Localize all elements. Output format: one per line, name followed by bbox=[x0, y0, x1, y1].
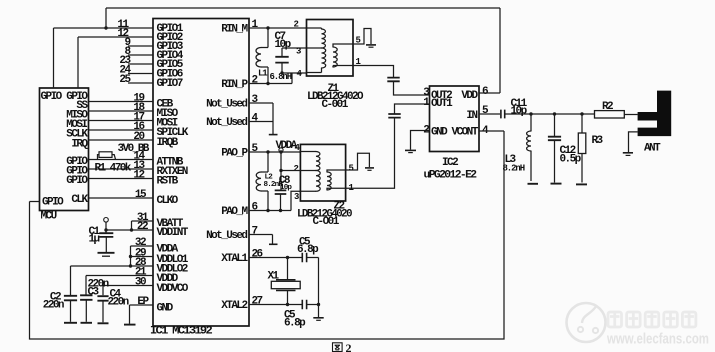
svg-text:220n: 220n bbox=[43, 300, 64, 312]
Z2 primary winding bbox=[300, 152, 316, 192]
svg-text:6.8p: 6.8p bbox=[297, 244, 319, 256]
ground (C12) bbox=[551, 183, 562, 185]
svg-text:C-001: C-001 bbox=[322, 99, 349, 111]
wire: Z2 pin 5 to ground bbox=[346, 153, 370, 170]
wire: MCU GPIO riser to IC1 pin 12 bbox=[77, 37, 79, 88]
svg-text:30: 30 bbox=[135, 276, 146, 288]
svg-text:OUT1: OUT1 bbox=[431, 98, 453, 110]
wire: PAO_M riser to Z2 pin 3 bbox=[291, 191, 300, 210]
capacitor C1 1u bbox=[99, 233, 113, 237]
svg-text:3: 3 bbox=[294, 192, 299, 202]
power terminal (3V0) above C1 bbox=[104, 218, 109, 223]
svg-text:2: 2 bbox=[346, 341, 352, 352]
capacitor C2 220n bbox=[64, 296, 77, 301]
IC1 pin 18 MISO wire and labels bbox=[89, 110, 154, 112]
svg-text:2: 2 bbox=[294, 20, 299, 30]
IC1 pin 21 VDDD wire and labels bbox=[86, 275, 153, 277]
svg-text:PAO_M: PAO_M bbox=[221, 206, 248, 218]
IC1 pin 1 RIN_M wire and labels bbox=[249, 27, 307, 29]
svg-text:GPIO: GPIO bbox=[66, 175, 88, 187]
IC1 pin 16 SPICLK wire and labels bbox=[89, 129, 154, 131]
IC1 pin 20 IRQB wire and labels bbox=[89, 139, 154, 141]
wire: OUT1 to coupling cap and Z2 pin 1 bbox=[395, 104, 430, 114]
svg-text:0.5p: 0.5p bbox=[560, 153, 582, 165]
IC1 pin 29 VDDLO1 wire and labels bbox=[131, 256, 154, 258]
watermark logo circle bbox=[567, 303, 606, 342]
ground (Z2 pin5) bbox=[365, 167, 374, 169]
IC1 pin 32 VDDA wire and labels bbox=[131, 245, 154, 247]
wire: IC2 VDD to top rail bbox=[479, 92, 500, 94]
svg-text:www.elecfans.com: www.elecfans.com bbox=[606, 332, 709, 348]
svg-text:8.2nH: 8.2nH bbox=[503, 163, 525, 173]
inductor L1 6.8nH bbox=[261, 28, 268, 84]
ground (L3) bbox=[528, 183, 539, 185]
wire: bottom rail from MCU GPIO to IC2 VCONT bbox=[30, 131, 505, 339]
svg-text:5: 5 bbox=[349, 164, 354, 174]
balun Z1 LDB212G402O box bbox=[307, 20, 354, 77]
IC1 pin 30 VDDVCO wire and labels bbox=[103, 285, 153, 287]
svg-text:MCU: MCU bbox=[41, 211, 57, 223]
svg-text:C-O01: C-O01 bbox=[313, 216, 340, 228]
svg-text:ANT: ANT bbox=[644, 142, 661, 154]
ground (C2) bbox=[64, 322, 77, 324]
wire: VDDA riser to Z2 pin 2 and C8 bbox=[280, 152, 282, 190]
svg-text:GPIO: GPIO bbox=[41, 91, 63, 103]
wire: IC2 VCONT to bottom rail bbox=[479, 130, 504, 132]
svg-text:IRQB: IRQB bbox=[157, 137, 179, 149]
capacitor C5 (bottom) 6.8p bbox=[302, 300, 306, 309]
svg-text:CLKO: CLKO bbox=[157, 195, 179, 207]
Z2 secondary winding bbox=[327, 172, 331, 190]
ground (R3) bbox=[576, 183, 587, 185]
wire: IC2 GND to ground bbox=[411, 131, 430, 150]
svg-text:VDD: VDD bbox=[461, 90, 478, 102]
ground (C4) bbox=[98, 322, 109, 324]
wire: top rail from GPIO1 net to IC2 VDD bbox=[106, 8, 500, 93]
svg-text:3: 3 bbox=[296, 47, 301, 57]
ground (IC2 GND) bbox=[405, 149, 416, 151]
antenna ANT (inverted-F, solid) bbox=[638, 91, 672, 137]
wire: VDDLO2 rail down to C2 bbox=[70, 266, 72, 295]
capacitor C12 0.5p bbox=[554, 114, 556, 136]
svg-text:RSTB: RSTB bbox=[157, 176, 179, 188]
svg-text:22: 22 bbox=[137, 221, 148, 233]
Z1 primary winding bbox=[307, 28, 322, 73]
svg-text:uPG2012-E2: uPG2012-E2 bbox=[424, 169, 477, 181]
IC1 pin EP GND wire and labels bbox=[130, 304, 154, 306]
svg-text:R1 470k: R1 470k bbox=[95, 163, 132, 175]
wire: Not_Used pins 3,4 tied down to ground bbox=[272, 103, 274, 134]
wire: IC2 IN output line bbox=[479, 113, 500, 115]
wire: MCU GPIO riser to IC1 pin 11 bbox=[53, 28, 55, 88]
capacitor C7 10p bbox=[281, 48, 283, 73]
svg-text:20: 20 bbox=[133, 131, 144, 143]
watermark 电子发烧友 (stylized) bbox=[608, 312, 696, 327]
IC U2: IC2 uPG2012-E2 PA box bbox=[430, 86, 480, 152]
svg-text:GND: GND bbox=[431, 126, 448, 138]
IC1 pin 14 ATTNB wire and labels bbox=[89, 159, 154, 161]
svg-text:IC1 MC13192: IC1 MC13192 bbox=[150, 326, 212, 338]
svg-text:26: 26 bbox=[252, 248, 263, 260]
IC1 pin 24 GPIO6 wire and labels bbox=[128, 73, 153, 75]
IC1 pin 19 CEB wire and labels bbox=[89, 101, 154, 103]
wire: Z1 pin 1 to coupling cap bbox=[353, 66, 394, 78]
svg-text:XTAL2: XTAL2 bbox=[221, 300, 247, 312]
IC1 pin 7 Not_Used wire and labels bbox=[249, 234, 273, 236]
svg-text:CLK: CLK bbox=[71, 194, 88, 206]
svg-text:27: 27 bbox=[252, 295, 263, 307]
wire: VDDD rail down to C3 bbox=[85, 276, 87, 295]
figure caption 图 2 bbox=[333, 343, 343, 352]
svg-text:1μ: 1μ bbox=[89, 234, 100, 246]
svg-text:12: 12 bbox=[133, 169, 144, 181]
IC1 pin 17 MOSI wire and labels bbox=[89, 120, 154, 122]
IC1 pin 12 GPIO2 wire and labels bbox=[78, 36, 153, 38]
IC1 pin 23 GPIO5 wire and labels bbox=[128, 63, 153, 65]
wire: antenna ground arm bbox=[629, 132, 638, 152]
svg-text:2: 2 bbox=[294, 164, 299, 174]
capacitor C3 220n bbox=[80, 295, 92, 300]
wire: EP/GND down to ground bbox=[129, 305, 131, 324]
coupling capacitor (TX, to OUT1) bbox=[388, 114, 400, 118]
resistor R3 bbox=[581, 114, 583, 183]
wire: Z1 pin 3 net bbox=[282, 47, 307, 49]
svg-text:XTAL1: XTAL1 bbox=[221, 253, 248, 265]
IC U1: IC1 MC13192 transceiver box bbox=[153, 19, 249, 327]
ground (Not_Used 7) bbox=[269, 243, 278, 245]
capacitor C11 10p bbox=[501, 110, 505, 119]
IC1 pin 13 RXTXEN wire and labels bbox=[89, 168, 154, 170]
ground (ANT) bbox=[623, 152, 633, 154]
wire: Not_Used pin 7 down to ground bbox=[272, 235, 274, 244]
svg-text:Not_Used: Not_Used bbox=[206, 230, 247, 242]
crystal X1 bbox=[286, 256, 289, 259]
IC1 pin 11 GPIO1 wire and labels bbox=[54, 27, 154, 29]
svg-text:RIN_M: RIN_M bbox=[221, 23, 248, 35]
IC1 pin 12 RSTB wire and labels bbox=[89, 178, 154, 180]
capacitor C4 220n bbox=[97, 296, 108, 301]
svg-text:RIN_P: RIN_P bbox=[221, 79, 248, 91]
IC1 pin 4 Not_Used wire and labels bbox=[249, 121, 273, 123]
ground (Not_Used 3/4) bbox=[269, 134, 278, 136]
capacitor C8 10p bbox=[275, 190, 287, 194]
inductor L3 8.2nH bbox=[530, 114, 532, 181]
svg-text:10p: 10p bbox=[275, 39, 292, 51]
svg-text:10p: 10p bbox=[511, 105, 528, 117]
wire: VDDA/VDDLO1/VDDLO2 rail riser bbox=[130, 246, 132, 266]
IC1 pin 28 VDDLO2 wire and labels bbox=[71, 265, 154, 267]
MCU box bbox=[40, 88, 89, 211]
IC1 pin 6 PAO_M wire and labels bbox=[249, 210, 291, 212]
capacitor C5 (top) 6.8p bbox=[302, 253, 306, 262]
svg-text:IC2: IC2 bbox=[442, 157, 458, 169]
IC1 pin 3 Not_Used wire and labels bbox=[249, 102, 273, 104]
wire: xtal caps common to ground bbox=[318, 258, 320, 318]
IC1 pin 9 GPIO3 wire and labels bbox=[128, 45, 153, 47]
svg-text:Not_Used: Not_Used bbox=[206, 117, 247, 129]
balun Z2 LDB212G4020 box bbox=[300, 144, 345, 201]
svg-text:VDDVCO: VDDVCO bbox=[157, 283, 189, 295]
IC1 pin 25 GPIO7 wire and labels bbox=[128, 82, 153, 84]
wire: VBATT/VDDINT tie riser bbox=[131, 221, 133, 230]
svg-text:6.8p: 6.8p bbox=[284, 317, 306, 329]
svg-text:220n: 220n bbox=[108, 297, 129, 309]
svg-text:IRQ: IRQ bbox=[71, 138, 88, 150]
IC1 pin 15 CLKO wire and labels bbox=[89, 197, 154, 199]
ground (xtal caps) bbox=[313, 317, 323, 319]
wire: RF line to antenna bbox=[531, 113, 595, 115]
ground (Z1 pin5) bbox=[366, 44, 376, 46]
resistor R1 470k bbox=[99, 152, 112, 158]
ground (C1) bbox=[98, 252, 115, 254]
inductor L2 8.2nH bbox=[261, 152, 268, 211]
svg-text:VDDINT: VDDINT bbox=[157, 227, 189, 239]
svg-text:3V0_BB: 3V0_BB bbox=[118, 143, 150, 155]
svg-text:IN: IN bbox=[466, 110, 477, 122]
ground (C3) bbox=[81, 322, 93, 324]
ground (EP) bbox=[124, 324, 136, 326]
IC1 pin 2 RIN_P wire and labels bbox=[249, 83, 292, 85]
wire: VDDVCO rail down to C4 bbox=[102, 286, 104, 296]
Z1 secondary winding bbox=[333, 47, 337, 67]
svg-text:PAO_P: PAO_P bbox=[221, 147, 248, 159]
svg-text:GPIO: GPIO bbox=[42, 197, 64, 209]
svg-text:VCONT: VCONT bbox=[452, 126, 479, 138]
svg-text:GPIO7: GPIO7 bbox=[157, 78, 183, 90]
svg-text:GND: GND bbox=[157, 303, 174, 315]
IC1 pin 31 VBATT wire and labels bbox=[132, 220, 154, 222]
IC1 pin 5 PAO_P wire and labels bbox=[249, 151, 301, 153]
svg-text:Not_Used: Not_Used bbox=[206, 98, 247, 110]
resistor R2 bbox=[595, 111, 625, 118]
coupling capacitor (RX, to OUT2) bbox=[387, 78, 399, 82]
IC1 pin 27 XTAL2 wire and labels bbox=[249, 304, 302, 306]
IC1 pin 22 VDDINT wire and labels bbox=[106, 229, 153, 231]
IC1 pin 26 XTAL1 wire and labels bbox=[249, 257, 302, 259]
wire: Z1 pin 5 to ground bbox=[353, 29, 371, 45]
wire: Z1 pin 4 net / RIN_P riser bbox=[282, 73, 307, 84]
svg-text:R2: R2 bbox=[602, 101, 613, 113]
IC1 pin 8 GPIO4 wire and labels bbox=[128, 54, 153, 56]
